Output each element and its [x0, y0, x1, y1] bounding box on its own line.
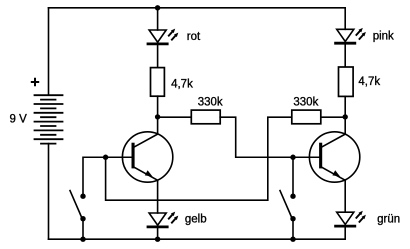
- LED D1 light arrows: [169, 29, 179, 40]
- node Q1 base junction: [103, 155, 108, 160]
- wire S2 to bottom rail: [292, 219, 294, 240]
- wire R2 to Q2 collector: [344, 96, 346, 134]
- wire R4 left lead: [268, 116, 292, 118]
- LED D4 gruen: [336, 212, 355, 226]
- wire top rail: [49, 7, 346, 9]
- node Q2 collector junction: [343, 114, 348, 119]
- battery 9V: [35, 95, 63, 143]
- wire R3 to Q2 base (jog right-down-right): [220, 117, 293, 157]
- wire Q2 base lead: [293, 156, 319, 158]
- wire R1 to Q1 collector: [157, 96, 159, 134]
- node S1 / bottom rail: [80, 237, 85, 242]
- label gelb: [185, 213, 207, 225]
- wire Q1 base lead: [106, 156, 132, 158]
- label 330k (left): [198, 96, 223, 108]
- wire red LED anode lead: [157, 8, 159, 30]
- label 4,7k (left): [171, 79, 193, 91]
- node Q1 collector junction: [155, 114, 160, 119]
- LED D3 gelb: [148, 213, 167, 227]
- resistor R4 330k: [292, 110, 321, 124]
- LED D4 light arrows: [356, 211, 366, 222]
- node S2 / bottom rail: [290, 237, 295, 242]
- label pink: [373, 31, 394, 43]
- svg-text:grün: grün: [377, 214, 400, 226]
- wire bottom rail: [49, 238, 346, 240]
- transistor Q1: [122, 132, 172, 182]
- transistor Q2: [309, 132, 359, 182]
- label 4,7k (right): [358, 76, 380, 88]
- wire pink LED to R2: [344, 43, 346, 67]
- LED D2 pink: [336, 29, 355, 43]
- wire Q2 emitter to green LED: [344, 180, 346, 212]
- wire left rail upper (battery plus lead): [48, 8, 50, 95]
- resistor R1 4,7k: [151, 68, 165, 97]
- wire collector node to R3: [158, 116, 192, 118]
- wire Q2 base node to switch S2: [292, 157, 294, 196]
- wire Q1 emitter to yellow LED: [157, 180, 159, 213]
- LED D1 rot: [148, 30, 167, 44]
- wire Q1 base node to switch S1: [83, 157, 106, 196]
- LED D2 light arrows: [356, 28, 366, 39]
- svg-text:4,7k: 4,7k: [358, 76, 380, 88]
- node Q2 base junction: [290, 155, 295, 160]
- wire top rail corner to pink LED: [344, 8, 346, 30]
- wire green LED to bottom rail corner: [344, 226, 346, 239]
- label 330k (right): [293, 96, 318, 108]
- svg-text:330k: 330k: [198, 96, 223, 108]
- svg-text:gelb: gelb: [185, 213, 207, 225]
- wire S1 to bottom rail: [82, 219, 84, 240]
- svg-text:4,7k: 4,7k: [171, 79, 193, 91]
- node yellow LED / bottom rail: [155, 237, 160, 242]
- label gruen: [377, 214, 400, 226]
- wire yellow LED to bottom rail: [157, 227, 159, 239]
- svg-text:pink: pink: [373, 31, 394, 43]
- node top rail / red LED column: [155, 5, 160, 10]
- svg-text:330k: 330k: [293, 96, 318, 108]
- switch S2: [280, 191, 296, 222]
- wire left rail lower (battery minus lead): [48, 144, 50, 240]
- resistor R2 4,7k: [339, 67, 354, 96]
- resistor R3 330k: [191, 110, 220, 124]
- battery plus sign: [32, 79, 38, 85]
- svg-text:rot: rot: [187, 31, 201, 43]
- label rot: [187, 31, 201, 43]
- wire R4 to Q2 collector node: [321, 116, 345, 118]
- wire cross-coupling from Q1 base node down and right: [106, 118, 268, 201]
- wire between red LED and R1: [157, 44, 159, 68]
- svg-text:9 V: 9 V: [10, 114, 28, 126]
- LED D3 light arrows: [169, 212, 179, 223]
- switch S1: [70, 191, 86, 222]
- label 9 V: [10, 114, 28, 126]
